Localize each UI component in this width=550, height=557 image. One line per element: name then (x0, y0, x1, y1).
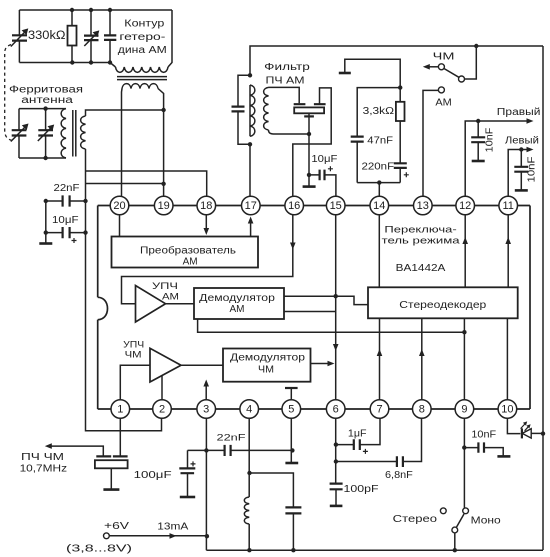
inductor pin17 tank coil (250, 85, 255, 136)
svg-text:16: 16 (288, 200, 300, 212)
svg-text:19: 19 (158, 200, 170, 212)
wire right edge bus (542, 46, 544, 550)
svg-text:6: 6 (333, 404, 339, 416)
capacitor 100μF electrolytic (187, 450, 189, 496)
node pin 6 (326, 400, 345, 419)
wire 47nF leg (357, 88, 400, 183)
wire converter to pin17 (arrow) (250, 222, 252, 236)
svg-text:Стереодекодер: Стереодекодер (399, 300, 487, 311)
wire pin16 to AM IF amp (122, 215, 293, 304)
node pin 1 (111, 400, 130, 419)
node pin 4 (240, 400, 259, 419)
node pin 16 (285, 196, 304, 215)
capacitor 22nF (bottom) (188, 449, 293, 451)
svg-text:Правый: Правый (497, 107, 541, 118)
capacitor antenna trimmer 1 (18, 109, 20, 158)
node pin 18 (197, 196, 216, 215)
node pin 12 (456, 196, 475, 215)
pin5 internal stub (290, 388, 292, 409)
svg-text:220nF: 220nF (362, 161, 395, 172)
node pin 20 (110, 196, 129, 215)
wire FM output arrow (428, 66, 438, 68)
ground (180, 496, 195, 499)
svg-text:15: 15 (330, 200, 342, 212)
svg-text:Контур: Контур (124, 19, 165, 30)
svg-text:8: 8 (419, 404, 425, 416)
svg-text:20: 20 (113, 200, 125, 212)
svg-text:Преобразователь: Преобразователь (140, 245, 236, 257)
svg-text:ЧМ: ЧМ (125, 350, 142, 361)
inductor AM filter input coil (264, 87, 269, 130)
svg-text:BA1442A: BA1442A (396, 263, 446, 274)
wire pin3 down (205, 409, 207, 550)
capacitor 10μF (pin15) (309, 175, 336, 206)
switch FM/AM moving contact (459, 76, 465, 82)
wire FM IF output arrow (51, 446, 103, 456)
wire +6V feed (109, 535, 206, 537)
svg-text:Фильтр: Фильтр (264, 62, 310, 73)
svg-text:дина АМ: дина АМ (118, 45, 167, 56)
wire tank cap branch (250, 473, 294, 550)
wire antenna secondary top to pin19 net (86, 110, 164, 116)
svg-text:3: 3 (203, 404, 209, 416)
ground (472, 160, 485, 163)
wire pin4 tank (248, 409, 250, 550)
svg-text:47nF: 47nF (367, 136, 393, 147)
transformer antenna secondary winding (81, 116, 86, 149)
capacitor 10μF electrolytic (46, 232, 86, 234)
svg-text:ЧМ: ЧМ (258, 365, 274, 376)
wire stereodecoder to pin11 (arrow) (507, 206, 509, 288)
wire FM amp out (181, 364, 223, 366)
capacitor 1μF electrolytic (336, 409, 380, 445)
node pin 10 (498, 400, 517, 419)
svg-text:4: 4 (246, 404, 252, 416)
wire branch to pin 19 (86, 183, 164, 185)
svg-text:13mA: 13mA (157, 521, 188, 532)
transformer antenna core (73, 110, 76, 157)
resistor 3,3kΩ (399, 88, 401, 164)
svg-text:+6V: +6V (104, 521, 129, 532)
wire stereodecoder to pin8 (arrow) (421, 318, 423, 409)
wire AM contact to pin 13 (423, 90, 438, 205)
svg-text:10nF: 10nF (471, 430, 496, 441)
svg-text:2: 2 (159, 404, 165, 416)
wire antenna top rail (19, 108, 66, 110)
svg-text:АМ: АМ (435, 98, 451, 109)
wire antenna secondary bottom / left bus (86, 149, 162, 431)
svg-text:тель режима: тель режима (382, 236, 461, 247)
wire pin15-pin6 vertical (335, 206, 337, 410)
wire AM demod out 1 to stereodecoder (284, 295, 336, 297)
box Демодулятор АМ (194, 288, 284, 319)
capacitor trimmer 2 (oscillator) (90, 10, 92, 63)
dashed gang line (tuning) (5, 45, 13, 141)
wire right channel output (pin 12) (465, 121, 527, 206)
ground (515, 189, 528, 192)
svg-text:АМ: АМ (230, 304, 245, 315)
svg-text:антенна: антенна (21, 95, 73, 106)
inductor FM tank (244, 497, 249, 524)
capacitor 10nF (right ch) (477, 121, 479, 161)
svg-text:7: 7 (376, 404, 382, 416)
svg-text:10,7MHz: 10,7MHz (20, 463, 67, 474)
capacitor 6,8nF (336, 409, 422, 462)
svg-text:12: 12 (459, 200, 471, 212)
switch AM contact (438, 87, 444, 93)
node pin 11 (499, 196, 518, 215)
transformer AM oscillator primary (110, 63, 116, 68)
wire pin5 to ground (290, 409, 292, 463)
capacitor 220nF electrolytic (394, 163, 407, 168)
ground (285, 462, 298, 465)
op-amp УПЧ АМ (136, 286, 166, 323)
wire stereodecoder to pin7 (arrow) (379, 318, 381, 409)
wire branch bottom to pin 14 (357, 182, 400, 184)
wire stereodecoder to pin9 (463, 318, 465, 409)
capacitor fixed (oscillator) (109, 10, 111, 63)
svg-text:13: 13 (417, 200, 429, 212)
wire filter output to pin16 (293, 88, 331, 206)
node pin 15 (326, 196, 345, 215)
svg-text:18: 18 (200, 200, 212, 212)
box Стереодекодер (368, 287, 518, 318)
crystal filter ПЧ ЧМ 10,7MHz (119, 409, 121, 456)
capacitor 10nF (pin9) (464, 448, 503, 456)
wire pin2 to FM amp (161, 375, 163, 409)
wire branch to pin 18 (86, 171, 207, 206)
node pin 3 (197, 400, 216, 419)
wire pin 19 riser (163, 110, 165, 206)
svg-text:3,3kΩ: 3,3kΩ (363, 106, 395, 117)
svg-text:АМ: АМ (162, 292, 179, 303)
wire cap leg down (45, 201, 47, 243)
supply terminal +6V (104, 533, 110, 539)
resistor 330kΩ body (71, 10, 73, 63)
wire pin6 branch (335, 409, 337, 483)
capacitor pin17 tank (238, 75, 250, 144)
node pin 9 (455, 400, 474, 419)
svg-text:5: 5 (288, 404, 294, 416)
wire pin17 riser + top rail (250, 46, 543, 206)
switch stereo/mono (463, 508, 469, 514)
wire pin1 to FM amp (120, 365, 150, 409)
svg-text:17: 17 (245, 200, 257, 212)
transformer AM oscillator secondary (122, 84, 158, 89)
ceramic filter AM (3-terminal) (294, 103, 326, 105)
svg-text:10μF: 10μF (52, 215, 79, 226)
svg-text:Моно: Моно (471, 516, 502, 527)
svg-text:ПЧ АМ: ПЧ АМ (266, 75, 305, 86)
svg-text:10μF: 10μF (311, 154, 337, 165)
svg-text:Демодулятор: Демодулятор (199, 293, 275, 304)
wire pin20 into converter (119, 206, 121, 237)
svg-text:УПЧ: УПЧ (152, 281, 178, 292)
svg-text:22nF: 22nF (54, 183, 80, 194)
svg-text:(3,8...8V): (3,8...8V) (66, 544, 132, 555)
wire stereodecoder to pin10 (506, 318, 508, 409)
box Преобразователь АМ (112, 237, 259, 268)
svg-text:9: 9 (461, 404, 467, 416)
svg-text:10nF: 10nF (527, 157, 538, 183)
svg-text:ЧМ: ЧМ (433, 52, 455, 63)
ground (497, 455, 510, 458)
LED indicator (507, 409, 520, 434)
node pin 2 (153, 400, 172, 419)
svg-text:1: 1 (117, 404, 123, 416)
svg-text:330kΩ: 330kΩ (28, 30, 66, 42)
node pin 5 (282, 400, 301, 419)
capacitor 22nF (46, 200, 86, 202)
node pin 14 (370, 196, 389, 215)
wire amp out (166, 303, 195, 305)
transformer antenna primary winding (61, 109, 66, 158)
wire AM demod bottom to pin9 line (198, 319, 465, 332)
capacitor trimmer (oscillator tuning) (18, 10, 20, 63)
svg-text:Стерео: Стерео (393, 514, 438, 525)
ground (303, 185, 316, 188)
wire stereodecoder to pin12 (arrow) (464, 206, 466, 288)
wire filter ground tab down (308, 113, 310, 186)
capacitor antenna trimmer 2 (45, 109, 47, 158)
wire left channel output (pin 11) (508, 150, 527, 206)
svg-text:1μF: 1μF (348, 429, 367, 440)
svg-text:10nF: 10nF (485, 128, 496, 153)
svg-text:гетеро-: гетеро- (119, 32, 165, 43)
node pin 17 (242, 196, 261, 215)
wire pin18 into converter (arrow) (205, 206, 207, 230)
svg-text:14: 14 (373, 200, 385, 212)
node pin 8 (413, 400, 432, 419)
op-amp / IC BA1442A body (97, 206, 99, 410)
svg-text:Переключа-: Переключа- (384, 225, 456, 236)
wire pin14 to stereodecoder (378, 206, 380, 288)
svg-text:Демодулятор: Демодулятор (230, 353, 306, 364)
ground (330, 505, 343, 508)
capacitor 47nF (351, 137, 364, 142)
capacitor 10nF (left ch) (520, 150, 522, 191)
svg-text:11: 11 (502, 200, 513, 212)
node pin 19 (154, 196, 173, 215)
capacitor FM tank (285, 507, 301, 513)
capacitor 100pF (330, 484, 343, 490)
wire antenna bottom rail (19, 157, 66, 159)
ground (339, 72, 351, 75)
box Демодулятор ЧМ (223, 349, 311, 382)
svg-text:22nF: 22nF (217, 432, 246, 443)
ground (103, 488, 119, 491)
wire FM demod out (arrow) (311, 363, 329, 365)
node pin 13 (414, 196, 433, 215)
svg-text:АМ: АМ (183, 257, 198, 268)
svg-text:Левый: Левый (505, 136, 539, 147)
svg-text:ПЧ ЧМ: ПЧ ЧМ (21, 452, 64, 463)
switch FM contact (438, 64, 444, 70)
wire pin3 arrow up (205, 385, 207, 409)
wire to switch (464, 46, 476, 79)
ground (39, 242, 52, 245)
svg-text:6,8nF: 6,8nF (385, 470, 413, 481)
svg-text:10: 10 (501, 404, 513, 416)
node pin 7 (370, 400, 389, 419)
wire pin9 down (463, 409, 465, 508)
transformer AM oscillator core (117, 77, 167, 80)
svg-text:100μF: 100μF (134, 469, 172, 481)
wire bottom rail (206, 549, 543, 551)
wire AM demod out 2 (284, 311, 336, 313)
wire oscillator tank bottom rail (19, 62, 110, 64)
svg-text:100pF: 100pF (344, 484, 379, 495)
wire oscillator tank top rail (19, 9, 172, 11)
